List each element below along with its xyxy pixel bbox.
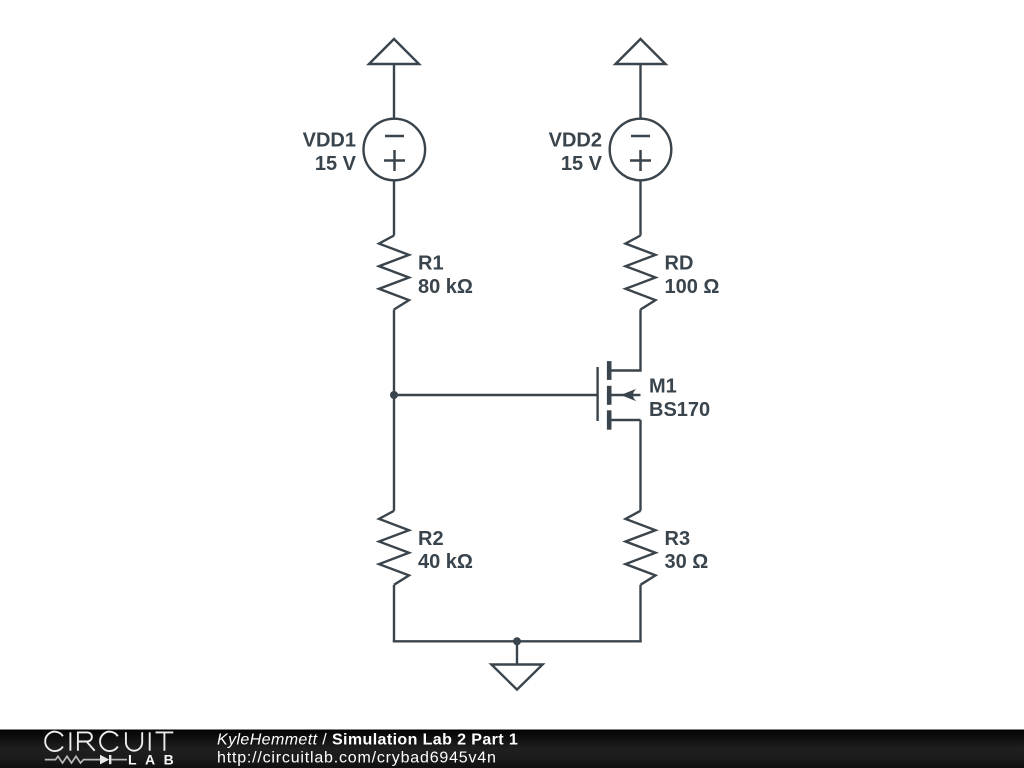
node dot gate junction <box>390 391 398 399</box>
power flag VDD2 arrow <box>616 39 666 64</box>
svg-text:RD: RD <box>665 253 694 275</box>
wire VDD1 flag to source <box>393 64 395 119</box>
resistor R2 <box>379 511 409 585</box>
svg-text:80 kΩ: 80 kΩ <box>418 276 473 298</box>
footer bar <box>0 730 1024 768</box>
MOSFET M1 gate line <box>596 367 598 421</box>
node dot ground junction <box>513 637 521 645</box>
VDD1 minus sign <box>385 135 404 138</box>
svg-text:LAB: LAB <box>128 751 182 767</box>
resistor RD <box>626 236 656 310</box>
svg-text:VDD1: VDD1 <box>303 130 356 152</box>
resistor R3 <box>626 511 656 585</box>
voltage source VDD1 circle <box>364 119 426 181</box>
MOSFET M1 bulk arrow line <box>611 394 641 396</box>
svg-text:100 Ω: 100 Ω <box>665 276 720 298</box>
VDD2 minus sign <box>631 135 650 138</box>
svg-text:R1: R1 <box>418 253 444 275</box>
VDD2 plus sign <box>630 150 651 171</box>
wire VDD2 flag to source <box>639 64 641 119</box>
svg-text:R3: R3 <box>665 528 691 550</box>
wire R2 to bottom rail <box>393 585 395 642</box>
VDD1 plus sign <box>384 150 405 171</box>
ground stem wire <box>516 641 518 664</box>
svg-text:40 kΩ: 40 kΩ <box>418 551 473 573</box>
voltage source VDD2 circle <box>610 119 672 181</box>
wire VDD1 to R1 <box>393 180 395 235</box>
wire gate node to M1 gate <box>394 394 598 396</box>
logo diode <box>100 755 109 765</box>
bottom rail wire <box>393 640 642 642</box>
svg-text:http://circuitlab.com/crybad69: http://circuitlab.com/crybad6945v4n <box>217 750 497 767</box>
svg-text:R2: R2 <box>418 528 444 550</box>
wire M1 source to R3 <box>639 420 641 511</box>
logo resistor squiggle <box>45 756 100 763</box>
ground symbol <box>491 665 542 690</box>
svg-text:30 Ω: 30 Ω <box>665 551 709 573</box>
svg-text:VDD2: VDD2 <box>549 130 602 152</box>
power flag VDD1 arrow <box>369 39 419 64</box>
logo CIRCUIT lettering <box>45 732 173 751</box>
MOSFET M1 channel bars <box>607 361 612 380</box>
MOSFET M1 source lead <box>610 419 641 421</box>
svg-text:15 V: 15 V <box>315 153 357 175</box>
wire VDD2 to RD <box>639 180 641 235</box>
svg-text:KyleHemmett / Simulation Lab 2: KyleHemmett / Simulation Lab 2 Part 1 <box>217 731 518 748</box>
svg-text:15 V: 15 V <box>561 153 603 175</box>
wire R3 to bottom rail <box>639 585 641 642</box>
wire R1 to R2 <box>393 310 395 511</box>
MOSFET M1 arrowhead <box>621 389 636 401</box>
resistor R1 <box>379 236 409 310</box>
wire RD to M1 drain <box>610 310 641 371</box>
svg-text:M1: M1 <box>649 376 677 398</box>
svg-text:BS170: BS170 <box>649 399 710 421</box>
